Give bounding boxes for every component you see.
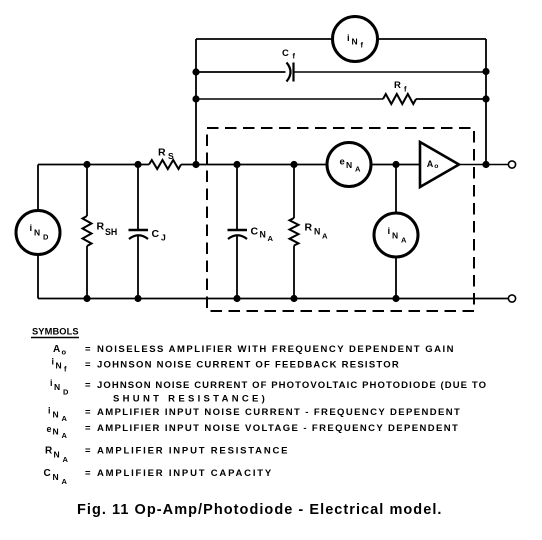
svg-text:N: N [54,382,60,392]
svg-text:A: A [427,159,434,169]
wire: eNA output node down to iNA [395,165,397,214]
legend row iNf [52,357,401,374]
svg-text:N: N [53,410,59,420]
node: top rail / CJ [134,161,141,168]
svg-text:=: = [85,468,91,479]
node: bottom rail / RSH [83,295,90,302]
svg-text:=: = [85,446,91,457]
wire: amplifier output to top terminal [460,164,508,166]
node: bottom rail / RNA [290,295,297,302]
resistor RS [149,147,181,170]
voltage source eNA (circle on top rail) [327,143,371,187]
wire: Rf branch right segment [416,98,486,100]
current source iNf (circle) [333,17,378,62]
svg-text:J: J [161,233,166,243]
svg-text:i: i [30,223,33,234]
svg-text:AMPLIFIER INPUT RESISTANCE: AMPLIFIER INPUT RESISTANCE [97,446,289,457]
svg-text:AMPLIFIER INPUT NOISE VOLTAGE: AMPLIFIER INPUT NOISE VOLTAGE - FREQUENC… [97,423,459,434]
svg-text:=: = [85,423,91,434]
svg-text:i: i [50,378,53,388]
svg-text:AMPLIFIER INPUT NOISE CURRENT: AMPLIFIER INPUT NOISE CURRENT - FREQUENC… [97,407,461,418]
svg-text:N: N [53,427,59,437]
node: bottom rail / CNA [233,295,240,302]
svg-text:R: R [45,446,53,457]
svg-text:A: A [322,232,328,241]
svg-text:N: N [54,450,60,460]
legend row eNA [47,423,460,440]
svg-text:o: o [434,163,438,170]
svg-text:i: i [52,357,55,367]
svg-text:i: i [388,226,391,237]
svg-text:i: i [347,33,350,44]
svg-text:A: A [62,477,68,486]
svg-text:N: N [56,361,62,371]
wire: iND to bottom rail [37,255,39,299]
legend row iND [50,378,487,405]
svg-text:C: C [251,226,259,238]
node: right rail / Cf junction [482,68,489,75]
svg-text:=: = [85,407,91,418]
svg-text:SH: SH [105,227,117,237]
svg-text:R: R [158,147,166,159]
legend row A0 [53,344,455,357]
svg-text:o: o [62,348,67,357]
svg-text:A: A [62,414,68,423]
node: bottom rail / iNA [392,295,399,302]
svg-text:N: N [392,231,398,241]
svg-text:A: A [53,344,60,355]
capacitor CJ (vertical, x=138) [129,165,167,299]
svg-text:AMPLIFIER INPUT CAPACITY: AMPLIFIER INPUT CAPACITY [97,468,273,479]
current source iNA (circle) [374,213,418,257]
wire: top rail RS to amplifier input [181,164,420,166]
capacitor Cf [282,48,296,82]
wire: feedback right rail (x=486, y39-164.5) [485,39,487,165]
node: output / feedback junction [482,161,489,168]
output terminal (top, open circle) [508,161,515,168]
node: top rail / feedback tap [192,161,199,168]
wire: Rf branch left segment [196,98,383,100]
wire: Cf branch left segment [196,71,286,73]
dashed amplifier boundary box [207,128,474,311]
resistor RSH (vertical, x=87) [83,165,118,299]
svg-text:R: R [305,222,313,234]
wire: bottom rail [38,298,508,300]
svg-text:C: C [282,48,289,59]
node: top rail / iNA tap [392,161,399,168]
svg-text:A: A [355,165,361,174]
wire: input top rail (left section) [38,164,149,166]
wire: feedback top branch through iNf [196,38,486,40]
node: top rail / RNA [290,161,297,168]
capacitor CNA (vertical, x=237) [228,165,274,299]
svg-text:C: C [44,468,51,479]
svg-text:N: N [260,230,266,240]
svg-text:N: N [346,160,352,170]
legend heading SYMBOLS [31,327,79,338]
svg-text:A: A [268,234,274,243]
svg-text:=: = [85,380,91,391]
svg-text:i: i [48,406,51,416]
resistor Rf [383,80,416,104]
svg-text:Fig. 11 Op-Amp/Photodiode - E: Fig. 11 Op-Amp/Photodiode - Electrical m… [77,502,443,518]
op-amp A0 (triangle) [420,142,459,187]
node: left rail / Cf junction [192,68,199,75]
svg-text:A: A [62,431,68,440]
svg-text:A: A [401,236,407,245]
wire: left rail (photodiode branch, x=38) [37,165,39,211]
current source iND (circle) [16,211,60,255]
svg-text:=: = [85,360,91,371]
node: top rail / RSH [83,161,90,168]
svg-text:e: e [47,424,52,434]
svg-text:e: e [340,157,345,168]
svg-text:N: N [34,228,40,238]
svg-text:R: R [97,221,105,233]
wire: feedback loop left rail (x=196, y39-164) [195,39,197,165]
svg-text:D: D [63,388,69,397]
svg-text:N: N [53,472,59,482]
svg-text:S: S [168,151,174,161]
node: top rail / CNA [233,161,240,168]
legend row iNA [48,406,461,424]
legend row CNA [44,468,274,486]
svg-text:=: = [85,344,91,355]
svg-text:NOISELESS AMPLIFIER WITH FREQU: NOISELESS AMPLIFIER WITH FREQUENCY DEPEN… [97,344,455,355]
node: left rail / Rf junction [192,95,199,102]
wire: Cf branch right segment [294,71,487,73]
legend row RNA [45,446,289,465]
svg-text:N: N [352,37,358,47]
resistor RNA (vertical, x=294) [290,165,329,299]
svg-text:JOHNSON NOISE CURRENT OF FEEDB: JOHNSON NOISE CURRENT OF FEEDBACK RESIST… [97,360,400,371]
svg-text:SYMBOLS: SYMBOLS [32,327,79,337]
svg-text:SHUNT RESISTANCE): SHUNT RESISTANCE) [113,394,268,405]
svg-text:N: N [314,227,320,237]
wire: iNA to bottom rail [395,257,397,299]
node: bottom rail / CJ [134,295,141,302]
svg-text:JOHNSON NOISE CURRENT OF PHOTO: JOHNSON NOISE CURRENT OF PHOTOVOLTAIC PH… [97,380,487,391]
svg-text:A: A [63,455,69,464]
svg-text:D: D [43,233,49,242]
node: right rail / Rf junction [482,95,489,102]
svg-text:R: R [394,80,401,91]
output terminal (bottom, open circle) [508,295,515,302]
svg-text:C: C [152,228,160,240]
